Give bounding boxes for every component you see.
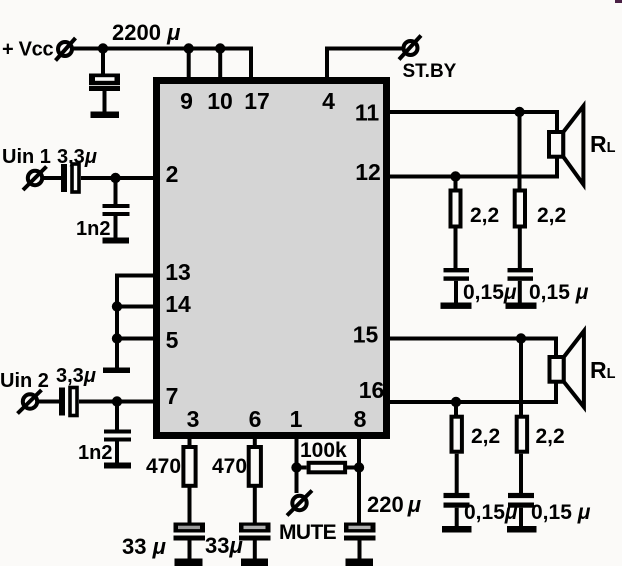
junction pin12-R4 bbox=[450, 171, 460, 181]
svg-text:3: 3 bbox=[187, 406, 200, 432]
capacitor C8 220u bbox=[344, 523, 376, 561]
wire C4 to pin 7 bbox=[79, 400, 154, 404]
wire R3 right bbox=[347, 466, 359, 470]
wire pin 1 bbox=[295, 435, 299, 493]
wire R5 to C10 bbox=[518, 229, 522, 269]
svg-text:7: 7 bbox=[166, 383, 179, 409]
ground (C11) bbox=[442, 526, 472, 533]
terminal ST.BY bbox=[399, 36, 421, 60]
wire pin 11 to speaker bbox=[389, 112, 557, 134]
svg-text:Uin 1: Uin 1 bbox=[2, 146, 51, 168]
ground (C10) bbox=[506, 303, 537, 309]
svg-text:4: 4 bbox=[322, 88, 335, 114]
svg-text:2,2: 2,2 bbox=[470, 204, 499, 227]
wire pin 10 bbox=[218, 49, 222, 82]
svg-text:13: 13 bbox=[165, 259, 191, 285]
wire pin 15 to speaker bbox=[389, 339, 556, 360]
junction bus-pin14 bbox=[112, 301, 122, 311]
junction pin1-R3 bbox=[291, 462, 301, 472]
terminal Uin 1 bbox=[23, 167, 47, 191]
resistor R1 470 bbox=[183, 447, 195, 486]
svg-text:2200 μ: 2200 μ bbox=[112, 20, 180, 45]
speaker RL (bottom) bbox=[550, 331, 584, 407]
capacitor C11 0,15u bbox=[444, 493, 470, 527]
svg-text:5: 5 bbox=[166, 327, 179, 353]
junction Vcc-pin9 bbox=[184, 43, 194, 53]
wire pin 4 to ST.BY bbox=[327, 49, 402, 82]
svg-text:1n2: 1n2 bbox=[78, 442, 112, 464]
svg-text:3,3μ: 3,3μ bbox=[56, 365, 96, 387]
wire R6 to C11 bbox=[455, 454, 459, 493]
capacitor C5 1n2 bbox=[104, 402, 131, 464]
wire R6 top bbox=[454, 402, 458, 416]
terminal +Vcc bbox=[56, 38, 76, 61]
wire R4 top bbox=[454, 177, 458, 191]
svg-text:10: 10 bbox=[207, 88, 233, 114]
resistor R6 2,2 bbox=[452, 417, 462, 452]
junction Vcc-pin10 bbox=[215, 43, 225, 53]
capacitor C6 33u bbox=[174, 523, 206, 561]
svg-text:15: 15 bbox=[353, 322, 379, 348]
wire R7 to C12 bbox=[519, 454, 523, 493]
svg-text:17: 17 bbox=[244, 88, 270, 114]
junction pin7-C5 bbox=[112, 396, 122, 406]
svg-text:2: 2 bbox=[166, 161, 179, 187]
wire pin 9 bbox=[187, 49, 191, 82]
ground (C12) bbox=[507, 526, 537, 533]
ground (C9) bbox=[441, 303, 472, 309]
svg-text:9: 9 bbox=[180, 88, 193, 114]
wire pin 6 bbox=[253, 435, 257, 449]
svg-text:0,15 μ: 0,15 μ bbox=[531, 501, 591, 524]
ground (C7) bbox=[241, 559, 268, 566]
svg-text:100k: 100k bbox=[300, 439, 347, 462]
svg-text:1: 1 bbox=[290, 406, 303, 432]
ground (C1) bbox=[91, 112, 120, 119]
wire pin 8 bbox=[357, 435, 361, 523]
wire pin 14 bbox=[117, 305, 154, 309]
svg-text:2,2: 2,2 bbox=[471, 425, 500, 448]
wire pin 5 bbox=[117, 337, 154, 341]
junction pin16-R6 bbox=[451, 397, 461, 407]
svg-text:2,2: 2,2 bbox=[537, 204, 566, 227]
wire pin 3 bbox=[188, 435, 192, 449]
svg-text:Uin 2: Uin 2 bbox=[0, 370, 49, 392]
svg-text:2,2: 2,2 bbox=[536, 425, 565, 448]
svg-text:1n2: 1n2 bbox=[76, 218, 110, 240]
svg-text:12: 12 bbox=[355, 159, 381, 185]
junction pin8-R3 bbox=[354, 462, 364, 472]
svg-text:14: 14 bbox=[165, 291, 191, 317]
wire Uin1 to C2 bbox=[43, 176, 61, 180]
capacitor C1 2200u bbox=[89, 74, 120, 113]
svg-text:0,15μ: 0,15μ bbox=[463, 281, 517, 304]
wire R3 left bbox=[297, 466, 307, 470]
svg-text:6: 6 bbox=[249, 406, 262, 432]
junction pin11-R5 bbox=[514, 107, 524, 117]
resistor R2 470 bbox=[249, 447, 261, 486]
wire bus 13-14-5 bbox=[115, 274, 119, 369]
wire pin11 junction to R5 bbox=[518, 112, 522, 190]
ground (bus 13-14-5) bbox=[103, 368, 130, 374]
capacitor C2 3,3u bbox=[61, 164, 79, 192]
wire pin 12 to speaker bbox=[389, 155, 557, 177]
capacitor C7 33u bbox=[239, 523, 271, 561]
ground (C6) bbox=[175, 559, 203, 566]
ground (C5) bbox=[104, 463, 131, 469]
svg-text:+ Vcc: + Vcc bbox=[2, 39, 53, 61]
wire R1 to C6 bbox=[188, 486, 192, 523]
svg-text:MUTE: MUTE bbox=[279, 521, 337, 544]
resistor R5 2,2 bbox=[515, 191, 525, 227]
wire R4 to C9 bbox=[454, 229, 458, 269]
terminal MUTE bbox=[287, 491, 312, 516]
svg-text:11: 11 bbox=[355, 100, 380, 126]
wire pin 13 bbox=[117, 274, 154, 278]
svg-text:470: 470 bbox=[146, 455, 181, 478]
capacitor C4 3,3u bbox=[59, 388, 77, 416]
speaker RL (top) bbox=[549, 106, 583, 185]
IC U1 bbox=[157, 81, 387, 436]
capacitor C9 0,15u bbox=[444, 268, 470, 303]
resistor R4 2,2 bbox=[451, 191, 461, 227]
wire +Vcc rail bbox=[72, 49, 251, 82]
svg-text:8: 8 bbox=[354, 406, 367, 432]
resistor R7 2,2 bbox=[517, 417, 527, 452]
svg-text:470: 470 bbox=[212, 455, 247, 478]
wire Uin2 to C4 bbox=[38, 400, 59, 404]
svg-text:220μ: 220μ bbox=[367, 492, 421, 517]
wire pin 16 to speaker bbox=[389, 381, 556, 402]
resistor R3 100k bbox=[309, 463, 346, 473]
wire C2 to pin 2 bbox=[81, 176, 154, 180]
svg-text:33μ: 33μ bbox=[205, 533, 243, 558]
junction Vcc-C1 bbox=[98, 43, 108, 53]
capacitor C3 1n2 bbox=[103, 178, 130, 238]
svg-text:16: 16 bbox=[359, 377, 385, 403]
wire pin15 junction to R7 bbox=[519, 339, 523, 417]
junction pin2-C3 bbox=[110, 173, 120, 183]
junction bus-pin5 bbox=[112, 333, 122, 343]
svg-text:33 μ: 33 μ bbox=[122, 534, 166, 559]
wire R2 to C7 bbox=[253, 486, 257, 523]
terminal Uin 2 bbox=[18, 390, 42, 414]
ground (C3) bbox=[103, 238, 130, 244]
wire C1 top bbox=[101, 49, 105, 75]
capacitor C12 0,15u bbox=[508, 493, 534, 527]
capacitor C10 0,15u bbox=[508, 268, 534, 303]
svg-text:0,15 μ: 0,15 μ bbox=[529, 281, 589, 304]
junction pin15-R7 bbox=[516, 333, 526, 343]
ground (C8) bbox=[346, 559, 374, 566]
svg-text:ST.BY: ST.BY bbox=[403, 61, 457, 82]
